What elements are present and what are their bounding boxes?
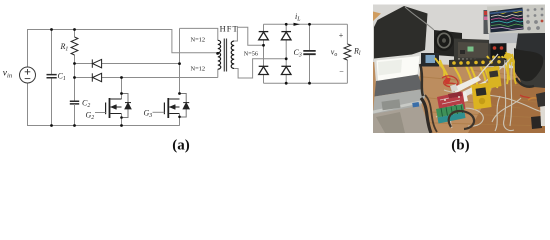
capacitor C3 [303, 51, 315, 54]
transformer core [224, 39, 226, 72]
capacitor C2 [70, 101, 79, 104]
wire C2 to bottom rail [74, 104, 76, 126]
photo: black instrument right [491, 42, 507, 63]
photo: laptop palm rest [373, 89, 425, 114]
body diode Q3 [183, 103, 189, 109]
wire primary top edge [180, 28, 218, 40]
photo: oscilloscope knobs [526, 8, 543, 31]
photo: orange cable right [528, 98, 543, 103]
wire bottom rail [28, 125, 180, 127]
wire gate G2 [95, 112, 106, 114]
photo: white probes [452, 76, 481, 93]
node bottom rail / C1 [50, 124, 53, 127]
photo: desk sliver top-left [373, 12, 381, 22]
node secondary top / bridge left mid [262, 44, 265, 47]
photo: yellow multimeter 2 [487, 66, 502, 89]
svg-text:+: + [339, 31, 344, 40]
wire bridge bottom rail [264, 82, 348, 84]
photo: laptop keyboard keys [375, 75, 424, 97]
wire Q2 source vertical [121, 114, 123, 127]
wire Q3 body-diode loop [180, 94, 187, 118]
node bridge right top [285, 23, 288, 26]
node snubber / D2 [73, 76, 76, 79]
diode D4 (bridge upper-right) [281, 32, 291, 40]
wire diode row 1 [75, 63, 180, 65]
capacitor C1 [47, 75, 57, 78]
wire Q2 body-diode loop [122, 94, 129, 118]
MOSFET Q2 [106, 98, 122, 118]
photo: red wire cluster [442, 76, 531, 99]
node bridge right bottom [285, 82, 288, 85]
node bottom rail / C2 [73, 124, 76, 127]
source V_in [20, 67, 36, 83]
photo: yellow plug cluster [504, 53, 512, 59]
photo: yellow multimeter 1 [472, 83, 492, 110]
photo: laptop lid [374, 6, 428, 62]
body diode Q2 [125, 103, 131, 109]
photo: laptop screen bezel [374, 54, 422, 84]
photo: desk grain [376, 70, 545, 126]
capacitor C1 branch wires [51, 29, 53, 126]
diode D2 [92, 73, 101, 81]
resistor R1 [71, 37, 78, 55]
wire snubber node vertical [74, 64, 76, 102]
svg-text:(a): (a) [172, 137, 190, 153]
photo: white strip right edge [540, 103, 545, 126]
photo: black blob bottom right [531, 116, 542, 129]
photo: motor [434, 30, 462, 57]
photo: oscilloscope body [487, 5, 545, 34]
node bottom rail / Q2 source [120, 124, 123, 127]
diode D1 [92, 59, 101, 67]
node top rail / C1 [50, 28, 53, 31]
node Q2 source / body diode [120, 116, 123, 119]
photo: green terminal blocks [436, 104, 465, 118]
photo: yellow cables center [435, 56, 508, 94]
wire Q3 drain riser / primary top link [179, 28, 181, 93]
wire diode row 2 [75, 77, 218, 79]
photo: small meter with blue screen [421, 53, 439, 67]
wire primary bottom link [217, 69, 219, 77]
node C3 bottom [308, 82, 311, 85]
photo: black object top right corner of desk [536, 92, 545, 107]
resistor R1 branch wires [74, 29, 76, 64]
photo: red PCB [437, 92, 466, 115]
transformer T1 primary winding [218, 40, 221, 69]
node Q3 drain / body diode [178, 92, 181, 95]
wire bridge left column [263, 24, 265, 83]
svg-text:N=12: N=12 [191, 66, 206, 73]
photo: yellow connector row [449, 58, 505, 67]
wire center-tap feed [172, 29, 218, 53]
photo: floor bottom-left [373, 101, 431, 133]
wire Q2 drain vertical [121, 78, 123, 100]
node D1 row / Q3 riser [178, 62, 181, 65]
node Q3 source / body diode [178, 116, 181, 119]
photo: dark cable loop bottom [449, 111, 474, 129]
photo: dark area under scope [489, 33, 519, 44]
wire Q3 source vertical [179, 114, 181, 126]
wire top rail from vin+ to corner x172 [28, 29, 172, 31]
wire load branch [346, 24, 348, 83]
capacitor C3 branch wires [309, 24, 311, 83]
diode D6 (bridge lower-right) [281, 66, 291, 74]
wire gate G3 [153, 111, 165, 113]
wire vin top lead [27, 29, 29, 67]
photo: laptop screen [377, 56, 420, 81]
svg-text:HFT: HFT [220, 24, 239, 33]
diode D3 (bridge upper-left) [259, 32, 269, 40]
transformer T1 secondary winding [231, 41, 234, 69]
diode D5 (bridge lower-left) [259, 66, 269, 74]
photo: cable bundle right of laptop [421, 98, 431, 133]
node Q2 drain / body diode [120, 92, 123, 95]
photo: probe cable over wall [405, 7, 434, 30]
svg-text:−: − [339, 67, 344, 76]
wire secondary bottom link [234, 59, 286, 78]
photo: grey cables long [436, 60, 544, 131]
MOSFET Q3 [164, 98, 179, 118]
photo: wall background [373, 5, 545, 134]
svg-text:(b): (b) [451, 137, 469, 153]
photo: desk [373, 62, 545, 133]
photo: scope side edge [484, 10, 490, 34]
node secondary bottom / bridge right mid [285, 57, 288, 60]
node D2 row / Q2 drain [120, 76, 123, 79]
svg-text:N=12: N=12 [191, 37, 206, 44]
photo: black cable mass right [514, 48, 543, 81]
node center tap [216, 52, 219, 55]
resistor Rl [344, 44, 351, 60]
photo: white roll [457, 92, 468, 103]
node C3 top [308, 23, 311, 26]
current arrow iL [294, 23, 301, 26]
photo: red clamp [444, 77, 450, 84]
photo: oscilloscope screen [490, 8, 524, 33]
wire bridge right column [285, 24, 287, 83]
wire vin bottom lead [27, 83, 29, 126]
photo: probe cables [478, 54, 498, 77]
svg-text:N=56: N=56 [244, 51, 258, 58]
photo: open chassis instrument [454, 39, 492, 63]
wire secondary top link [234, 27, 263, 45]
junction dots [50, 23, 311, 127]
node top rail / R1 [73, 28, 76, 31]
node snubber / D1 [73, 62, 76, 65]
wire bridge top rail [264, 23, 348, 25]
